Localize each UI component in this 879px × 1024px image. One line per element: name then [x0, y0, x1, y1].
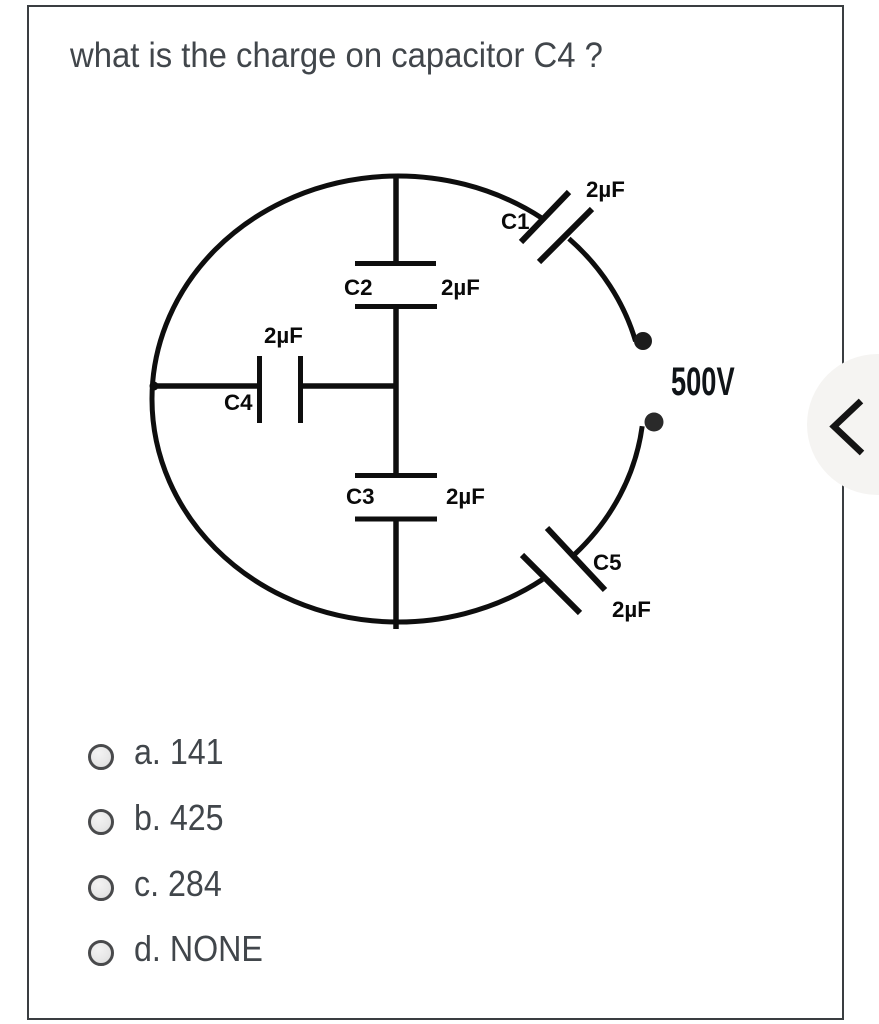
option a radio	[88, 744, 114, 770]
nav button circle	[807, 354, 879, 495]
wire: right horizontal segment to center node	[301, 383, 398, 389]
wire: upper-right arc from C1 to top terminal	[569, 239, 636, 342]
capacitor C2 plates	[355, 261, 436, 266]
wire: lower-right arc from bottom terminal to C5	[575, 426, 642, 554]
svg-text:2µF: 2µF	[446, 484, 485, 509]
capacitor C1 plates	[521, 192, 569, 242]
option b text	[134, 800, 224, 836]
wire: main loop arc (top-left-bottom)	[152, 176, 543, 622]
node: top terminal dot	[634, 332, 652, 350]
option c radio	[88, 875, 114, 901]
option a text	[134, 734, 224, 770]
capacitor C3 plates	[355, 473, 437, 478]
question text	[70, 36, 603, 76]
wire: left horizontal segment	[153, 383, 259, 389]
svg-text:C1: C1	[501, 209, 530, 234]
capacitor C4 plates	[257, 356, 262, 423]
circuit schematic	[140, 160, 765, 650]
node: left junction dot	[150, 382, 159, 391]
svg-text:C3: C3	[346, 484, 375, 509]
svg-text:C5: C5	[593, 550, 622, 575]
svg-text:2µF: 2µF	[612, 597, 651, 622]
option b radio	[88, 809, 114, 835]
svg-text:2µF: 2µF	[586, 177, 625, 202]
svg-text:C4: C4	[224, 390, 253, 415]
option d text	[134, 931, 263, 967]
option d radio	[88, 940, 114, 966]
wire: center vertical bottom segment	[393, 519, 399, 629]
node: bottom terminal dot	[645, 413, 664, 432]
svg-text:500V: 500V	[671, 360, 735, 404]
option c text	[134, 866, 222, 902]
wire: center vertical middle segment	[393, 306, 399, 475]
nav chevron	[807, 354, 879, 495]
capacitor C5 plates	[547, 528, 605, 590]
svg-text:2µF: 2µF	[441, 275, 480, 300]
wire: center vertical top segment	[393, 176, 399, 263]
svg-text:C2: C2	[344, 275, 373, 300]
svg-text:2µF: 2µF	[264, 323, 303, 348]
